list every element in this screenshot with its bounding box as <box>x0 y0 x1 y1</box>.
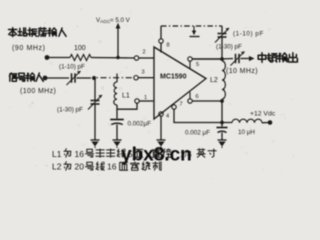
svg-text:16: 16 <box>107 162 117 172</box>
capacitor 0.002uF output <box>221 123 223 127</box>
svg-text:8: 8 <box>167 43 170 49</box>
pin 5 <box>188 57 192 61</box>
svg-text:100: 100 <box>74 45 86 52</box>
node input tank <box>92 76 96 80</box>
pin 3 <box>134 76 138 80</box>
pin 4 <box>159 112 163 116</box>
svg-text:10 μH: 10 μH <box>238 129 255 136</box>
wire <box>221 133 223 141</box>
svg-text:= 5.0 V: = 5.0 V <box>110 17 131 24</box>
signal input terminal <box>43 76 48 81</box>
svg-text:(10 MHz): (10 MHz) <box>226 68 258 75</box>
svg-text:(1-10) pF: (1-10) pF <box>233 31 264 38</box>
node L2 bottom <box>220 99 224 103</box>
node output tank <box>220 57 224 61</box>
wire with arrow to IF output <box>241 58 250 60</box>
svg-text:0.002: 0.002 <box>128 121 144 128</box>
wire pin5 to output node <box>192 58 222 60</box>
svg-text:L1: L1 <box>52 149 62 159</box>
svg-text:1/4: 1/4 <box>180 149 192 159</box>
wire L1 top tick <box>116 74 118 83</box>
ground <box>218 139 227 141</box>
ground <box>157 139 166 141</box>
svg-text:2: 2 <box>143 50 146 56</box>
wire riser to neutralization line <box>160 26 162 39</box>
local oscillator input label <box>9 28 67 37</box>
wire <box>116 125 118 141</box>
svg-text:L2: L2 <box>210 77 218 84</box>
inductor L1 <box>114 82 117 105</box>
node VAGC junction <box>116 56 119 59</box>
ground <box>91 139 100 141</box>
svg-text:16: 16 <box>75 149 85 159</box>
wire <box>91 57 134 60</box>
inductor L2 <box>222 61 225 99</box>
pin 1 <box>135 99 139 103</box>
LO input terminal <box>45 55 50 60</box>
wire <box>77 77 92 79</box>
svg-text:3: 3 <box>142 70 145 76</box>
wire <box>94 104 96 140</box>
wire <box>221 37 223 59</box>
wire <box>262 122 268 124</box>
pin 8 top <box>159 39 163 43</box>
+12V terminal <box>268 120 273 125</box>
wire dash-dot to pin 3 <box>97 77 134 79</box>
svg-text:L1: L1 <box>122 93 130 100</box>
RF choke 10uH <box>232 119 262 123</box>
shield arrow to bar <box>193 26 195 31</box>
variable capacitor (1-30)pF output coupling <box>222 58 233 61</box>
svg-text:L2: L2 <box>52 162 62 172</box>
wire dash-dot neutralization top <box>161 25 222 27</box>
VAGC supply arrow <box>117 27 119 58</box>
svg-text:MC1590: MC1590 <box>160 74 187 81</box>
svg-text:6: 6 <box>196 94 199 100</box>
svg-text:(100 MHz): (100 MHz) <box>20 88 56 95</box>
signal input label <box>9 73 43 81</box>
capacitor 0.002uF input <box>116 109 118 118</box>
wire pin4 to ground <box>160 116 162 140</box>
pin 7 <box>172 105 176 109</box>
wire <box>47 57 70 59</box>
svg-text:1: 1 <box>144 95 147 101</box>
node V+ rail junction <box>220 121 224 125</box>
ground <box>113 139 122 141</box>
wire pin7 to V+ rail <box>174 109 232 122</box>
wire <box>45 77 69 79</box>
svg-text:(1-10) pF: (1-10) pF <box>59 64 85 71</box>
svg-text:+12 Vdc: +12 Vdc <box>250 111 276 118</box>
svg-text:(1-30) pF: (1-30) pF <box>216 44 242 51</box>
wire <box>221 101 223 123</box>
pin 2 <box>134 56 138 60</box>
variable capacitor (1-10)pF neutralization <box>221 26 223 33</box>
IF output label <box>258 53 297 63</box>
svg-text:(1-30) pF: (1-30) pF <box>57 107 83 114</box>
wire <box>117 103 137 109</box>
svg-text:0.002 μF: 0.002 μF <box>185 130 210 137</box>
pin 6 <box>188 99 192 103</box>
wire pin6 to L2 bottom <box>192 100 222 102</box>
svg-text:4: 4 <box>166 114 169 120</box>
variable capacitor (1-30)pF input tank <box>94 79 96 100</box>
variable capacitor (1-10)pF input <box>72 73 76 83</box>
resistor 100 <box>70 55 91 61</box>
svg-text:20: 20 <box>75 162 85 172</box>
op-amp U1 MC1590 triangle <box>154 47 206 119</box>
